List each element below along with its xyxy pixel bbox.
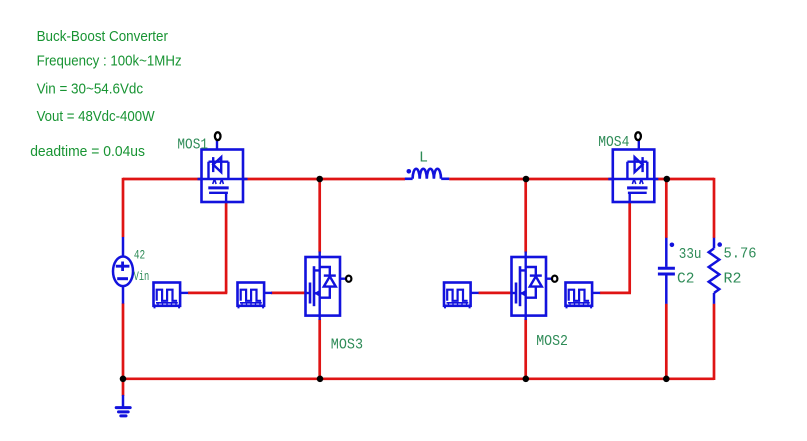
svg-text:MOS2: MOS2 [536, 333, 568, 350]
svg-text:Vout = 48Vdc-400W: Vout = 48Vdc-400W [37, 109, 155, 125]
svg-text:L: L [419, 149, 428, 166]
svg-text:R2: R2 [724, 271, 742, 288]
svg-text:deadtime = 0.04us: deadtime = 0.04us [30, 144, 145, 160]
svg-text:Frequency : 100k~1MHz: Frequency : 100k~1MHz [37, 53, 182, 69]
svg-text:C2: C2 [677, 271, 694, 288]
svg-text:MOS4: MOS4 [598, 134, 629, 151]
svg-text:MOS1: MOS1 [177, 136, 208, 153]
svg-text:MOS3: MOS3 [331, 336, 363, 353]
svg-text:5.76: 5.76 [724, 246, 757, 263]
svg-text:Buck-Boost Converter: Buck-Boost Converter [37, 29, 169, 45]
svg-text:Vin: Vin [134, 270, 150, 284]
svg-text:33u: 33u [679, 246, 702, 263]
svg-text:42: 42 [134, 248, 145, 262]
svg-text:Vin = 30~54.6Vdc: Vin = 30~54.6Vdc [37, 81, 144, 97]
